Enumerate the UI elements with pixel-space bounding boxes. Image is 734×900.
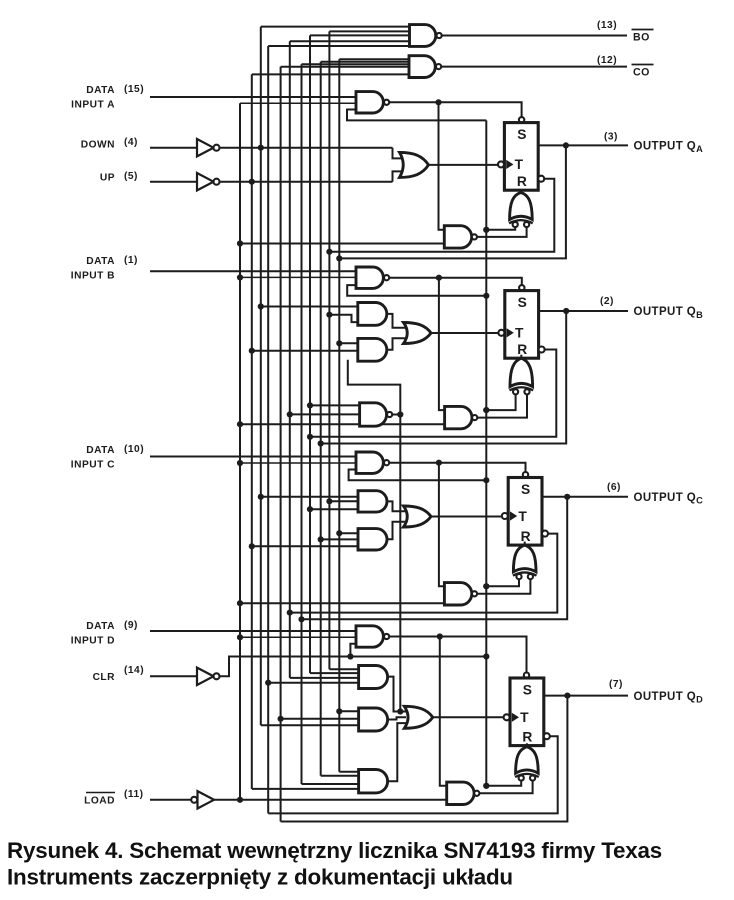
svg-text:DATA: DATA bbox=[86, 85, 115, 96]
nand-gate UA4 reset NAND stage A bbox=[444, 226, 477, 248]
or-gate stage D toggle OR bbox=[404, 706, 504, 728]
flip-flop UA2 T input bubble and arrow bbox=[498, 160, 513, 169]
svg-text:OUTPUT QC: OUTPUT QC bbox=[634, 492, 704, 506]
junction Q output node D bbox=[564, 693, 570, 699]
wire LOAD-bar rail bbox=[239, 103, 241, 800]
wire B AND1 input down bbox=[261, 306, 358, 308]
flip-flop UD2 T input bubble and arrow bbox=[504, 713, 519, 722]
wire D AND3 input up bbox=[252, 788, 359, 790]
wire CO input 2 from QB rail bbox=[321, 61, 409, 63]
svg-text:S: S bbox=[521, 482, 530, 497]
wire QB rail bbox=[320, 62, 322, 776]
wire stage C S-gate clear input bbox=[349, 470, 487, 481]
wire load to stage B S-gate bbox=[240, 276, 356, 278]
wire Q output stage C bbox=[542, 496, 628, 498]
wire D AND1 input 4 bbox=[268, 682, 358, 684]
junction bbox=[237, 600, 243, 606]
svg-text:UP: UP bbox=[100, 173, 115, 184]
svg-text:(4): (4) bbox=[124, 137, 138, 148]
flip-flop UC2 T input bubble and arrow bbox=[502, 511, 517, 520]
wire XOR right input to reset NAND bbox=[480, 781, 533, 794]
wire BO input 4 from Q-bar-C rail bbox=[290, 40, 409, 42]
flip-flop UD2 S input bubble bbox=[524, 673, 529, 678]
svg-text:(1): (1) bbox=[124, 255, 138, 266]
wire CO input 4 from QD rail bbox=[281, 66, 409, 68]
wire CO input 3 from QC rail bbox=[302, 63, 410, 65]
svg-text:OUTPUT QB: OUTPUT QB bbox=[634, 306, 704, 320]
wire B AND2 input QA bbox=[339, 342, 358, 344]
junction Q-bar joins rail bbox=[287, 610, 293, 616]
svg-text:(10): (10) bbox=[124, 444, 144, 455]
junction on CLR-bar rail bbox=[483, 293, 489, 299]
wire cross-couple down stage D bbox=[440, 637, 447, 786]
junction bbox=[237, 274, 243, 280]
label DATA INPUT B (1) bbox=[71, 255, 138, 282]
svg-text:Rysunek 4. Schemat wewnętrzny: Rysunek 4. Schemat wewnętrzny licznika S… bbox=[7, 838, 662, 863]
svg-text:(12): (12) bbox=[597, 55, 617, 66]
svg-text:DATA: DATA bbox=[86, 256, 115, 267]
wire XOR left input to CLR rail bbox=[486, 227, 515, 230]
svg-text:T: T bbox=[515, 157, 524, 172]
wire Q output stage D bbox=[544, 695, 628, 697]
wire XOR right input to reset NAND bbox=[477, 394, 527, 417]
label DATA INPUT C (10) bbox=[71, 444, 144, 471]
wire DATA INPUT C line bbox=[150, 456, 356, 458]
and-gate stage D AND3 bbox=[359, 770, 388, 793]
junction on CLR-bar rail bbox=[483, 477, 489, 483]
wire load to stage A S-gate bbox=[240, 102, 356, 104]
flip-flop UC2 S input bubble bbox=[523, 472, 528, 477]
or-gate stage B toggle OR bbox=[404, 323, 499, 344]
label LOAD (11) with overline bbox=[84, 789, 143, 807]
wire DATA INPUT B line bbox=[150, 270, 356, 272]
junction S-gate output node C bbox=[436, 460, 442, 466]
xor-gate UD3 reset gate stage D bbox=[515, 743, 539, 777]
wire D AND2 to OR bbox=[388, 717, 406, 719]
svg-text:(11): (11) bbox=[124, 789, 144, 800]
label output QC (6) bbox=[607, 482, 703, 506]
wire load to stage D S-gate bbox=[240, 636, 356, 638]
svg-text:INPUT D: INPUT D bbox=[71, 636, 115, 647]
flip-flop UB2 body bbox=[505, 291, 539, 359]
svg-text:(13): (13) bbox=[597, 20, 617, 31]
junction bbox=[336, 708, 342, 714]
junction bbox=[237, 421, 243, 427]
label UP (5) bbox=[100, 171, 138, 184]
and-gate stage C count-up AND bbox=[358, 529, 387, 550]
svg-text:DOWN: DOWN bbox=[81, 140, 115, 151]
wire S-gate output stage C bbox=[389, 463, 525, 472]
junction bbox=[336, 530, 342, 536]
label DOWN (4) bbox=[81, 137, 138, 151]
junction bbox=[307, 402, 313, 408]
junction on CLR-bar rail bbox=[483, 783, 489, 789]
and-gate stage B count-up AND bbox=[358, 338, 387, 361]
wire Q output stage B bbox=[539, 310, 628, 312]
label output QD (7) bbox=[609, 679, 703, 704]
junction on CLR-bar rail bbox=[483, 227, 489, 233]
inverter CLR buffer bbox=[197, 668, 220, 685]
svg-text:Instruments zaczerpnięty z dok: Instruments zaczerpnięty z dokumentacji … bbox=[7, 865, 513, 890]
wire B AND2 to OR bbox=[387, 338, 406, 350]
svg-text:CLR: CLR bbox=[93, 672, 116, 683]
wire cross-couple down stage C bbox=[439, 463, 445, 587]
junction LOAD rail tap bbox=[237, 797, 243, 803]
wire C AND1 input down bbox=[261, 496, 358, 498]
nand-gate UB1 data-load NAND stage B bbox=[356, 267, 389, 288]
wire D AND2 input QD bbox=[281, 718, 359, 720]
label CO with overline bbox=[632, 65, 654, 79]
and-gate stage B count-down AND bbox=[358, 303, 387, 326]
junction bbox=[307, 506, 313, 512]
wire Q-bar feedback stage D bbox=[268, 736, 558, 813]
flip-flop UD2 Q-bar bubble bbox=[544, 733, 550, 739]
svg-text:DATA: DATA bbox=[86, 621, 115, 632]
junction reset feedback on CLR rail bbox=[483, 227, 489, 233]
label DATA INPUT A (15) bbox=[71, 84, 144, 111]
svg-text:S: S bbox=[517, 127, 526, 142]
flip-flop UA2 Q-bar bubble bbox=[538, 176, 544, 182]
wire Q output stage A bbox=[538, 144, 628, 146]
junction Q output node B bbox=[563, 308, 569, 314]
nand-gate UB4 reset NAND stage B bbox=[445, 406, 478, 428]
wire XOR right input to reset NAND bbox=[477, 227, 526, 237]
wire D AND1 input 3 bbox=[290, 677, 359, 679]
wire Q-bar feedback stage B bbox=[310, 350, 556, 437]
label output QA (3) bbox=[604, 132, 703, 155]
nand-gate UD4 reset NAND stage D bbox=[447, 782, 480, 804]
xor-gate UC3 reset gate stage C bbox=[513, 542, 537, 576]
wire CO input 5 from UP rail bbox=[252, 73, 409, 75]
and-gate stage D AND2 bbox=[359, 708, 388, 731]
svg-text:T: T bbox=[520, 710, 529, 725]
junction Q joins rail bbox=[318, 440, 324, 446]
nand-gate BO (borrow output) bbox=[410, 25, 628, 47]
svg-text:(7): (7) bbox=[609, 679, 623, 690]
xor-gate input bubbles bbox=[516, 574, 533, 579]
junction UP rail tap bbox=[249, 179, 255, 185]
wire D AND2 input QA bbox=[339, 710, 358, 712]
junction bbox=[326, 312, 332, 318]
wire cascade in2 bbox=[290, 413, 360, 415]
wire load to stage C reset gate bbox=[240, 602, 444, 604]
wire cascade upper branch bbox=[348, 360, 401, 415]
or-gate stage A toggle OR bbox=[400, 152, 499, 177]
svg-text:INPUT B: INPUT B bbox=[71, 271, 115, 282]
flip-flop UA2 S input bubble bbox=[519, 117, 524, 122]
inverter DOWN buffer bbox=[197, 139, 220, 156]
wire D AND1 input 2 bbox=[310, 672, 359, 674]
wire C AND1 to OR bbox=[387, 501, 406, 511]
svg-text:(3): (3) bbox=[604, 132, 618, 143]
wire stage A S-gate clear input bbox=[347, 110, 486, 121]
wire QD rail bbox=[280, 67, 282, 822]
junction bbox=[249, 348, 255, 354]
wire Q-bar-C rail bbox=[289, 41, 291, 678]
wire S-gate output stage D bbox=[389, 637, 526, 673]
wire Q-bar-D rail bbox=[267, 46, 269, 813]
wire BO input 1 from DOWN rail bbox=[261, 26, 409, 28]
wire XOR left input to CLR rail bbox=[486, 781, 521, 786]
nand-gate UD1 data-load NAND stage D bbox=[356, 626, 389, 647]
xor-gate input bubbles bbox=[513, 222, 530, 227]
xor-gate input bubbles bbox=[513, 389, 530, 394]
junction Q output node C bbox=[564, 494, 570, 500]
junction bbox=[249, 543, 255, 549]
wire DOWN count rail bbox=[260, 27, 262, 726]
nand-gate CO (carry output) bbox=[409, 56, 627, 78]
svg-text:LOAD: LOAD bbox=[84, 796, 115, 807]
svg-text:OUTPUT QA: OUTPUT QA bbox=[634, 141, 704, 155]
junction bbox=[287, 411, 293, 417]
svg-text:T: T bbox=[515, 326, 524, 341]
flip-flop UA2 body bbox=[504, 123, 538, 191]
flip-flop UD2 body bbox=[510, 678, 544, 746]
wire Q-bar-A rail bbox=[328, 31, 330, 669]
caption line 2 bbox=[7, 865, 513, 890]
nand-gate UC4 reset NAND stage C bbox=[444, 583, 477, 605]
wire CLR buffered to rail bbox=[220, 657, 487, 677]
wire BO input 5 from Q-bar-D rail bbox=[268, 45, 409, 47]
label output QB (2) bbox=[600, 296, 703, 320]
junction Q joins rail bbox=[336, 255, 342, 261]
wire C AND2 input QA bbox=[339, 532, 358, 534]
label BO with overline bbox=[632, 30, 654, 44]
wire D AND3 input QA bbox=[339, 771, 358, 773]
junction CLR joins CLR-bar rail bbox=[483, 653, 489, 659]
flip-flop UC2 Q-bar bubble bbox=[542, 531, 548, 537]
junction bbox=[326, 498, 332, 504]
wire CLR input line bbox=[150, 675, 197, 677]
junction S-gate output node D bbox=[437, 633, 443, 639]
wire C AND1 input Q-bar-A bbox=[329, 500, 358, 502]
wire D AND2 input down bbox=[261, 724, 359, 726]
svg-text:INPUT C: INPUT C bbox=[71, 460, 115, 471]
junction Q joins rail bbox=[298, 616, 304, 622]
svg-text:CO: CO bbox=[633, 67, 650, 79]
flip-flop UB2 Q-bar bubble bbox=[539, 347, 545, 353]
wire S-gate output stage A bbox=[389, 102, 521, 117]
svg-text:OUTPUT QD: OUTPUT QD bbox=[634, 691, 704, 705]
nand-gate UC1 data-load NAND stage C bbox=[356, 452, 389, 473]
label pin (12) bbox=[597, 55, 617, 66]
junction cascade to OR-D bbox=[397, 708, 403, 714]
wire XOR left input to CLR rail bbox=[486, 394, 515, 410]
xor-gate input bubbles bbox=[519, 775, 536, 780]
wire S-gate output stage B bbox=[389, 278, 522, 286]
svg-text:(9): (9) bbox=[124, 620, 138, 631]
wire UP input line bbox=[150, 181, 197, 183]
wire BO input 3 from Q-bar-B rail bbox=[310, 34, 409, 36]
wire C AND2 to OR bbox=[387, 522, 406, 540]
svg-text:(5): (5) bbox=[124, 171, 138, 182]
nand-gate UA1 data-load NAND stage A bbox=[356, 92, 389, 113]
junction bbox=[237, 240, 243, 246]
flip-flop UB2 T input bubble and arrow bbox=[498, 328, 513, 337]
wire load to stage C S-gate bbox=[240, 462, 356, 464]
wire LOAD buffered line bbox=[214, 799, 447, 801]
xor-gate UB3 reset gate stage B bbox=[510, 355, 534, 391]
label CLR (14) bbox=[93, 665, 145, 683]
svg-text:(15): (15) bbox=[124, 84, 144, 95]
wire DOWN input line bbox=[150, 147, 197, 149]
junction CLR to stage D S-gate bbox=[347, 653, 353, 659]
inverter UP buffer bbox=[197, 173, 220, 190]
wire UP buffered bbox=[220, 171, 402, 181]
junction bbox=[336, 340, 342, 346]
svg-text:INPUT A: INPUT A bbox=[71, 100, 115, 111]
junction S-gate output node B bbox=[436, 275, 442, 281]
wire QA rail bbox=[338, 59, 340, 771]
and-gate stage C count-down AND bbox=[358, 491, 387, 512]
junction S-gate output node A bbox=[435, 99, 441, 105]
wire D AND1 to OR bbox=[388, 677, 406, 712]
wire D AND3 input QB bbox=[321, 775, 359, 777]
wire Q feedback stage B bbox=[321, 311, 567, 444]
junction bbox=[258, 303, 264, 309]
wire Q feedback stage D bbox=[281, 696, 568, 822]
wire Q feedback stage A bbox=[339, 145, 566, 258]
caption line 1 bbox=[7, 838, 662, 863]
svg-text:S: S bbox=[523, 683, 532, 698]
wire LOAD input line bbox=[150, 799, 191, 801]
wire D AND3 input QC bbox=[302, 783, 359, 785]
wire D AND1 input 1 bbox=[329, 668, 358, 670]
wire Q-bar feedback stage A bbox=[329, 179, 554, 252]
wire DOWN buffered bbox=[220, 148, 402, 159]
junction bbox=[237, 634, 243, 640]
svg-text:BO: BO bbox=[633, 32, 650, 44]
wire load to stage A reset gate bbox=[240, 243, 444, 245]
junction cascade node bbox=[397, 411, 403, 417]
label pin (13) bbox=[597, 20, 617, 31]
wire XOR right input to reset NAND bbox=[477, 579, 530, 594]
junction bbox=[265, 680, 271, 686]
wire XOR left input to CLR rail bbox=[486, 579, 519, 586]
svg-text:S: S bbox=[518, 295, 527, 310]
junction Q-bar joins rail bbox=[307, 434, 313, 440]
wire cross-couple down stage B bbox=[439, 278, 445, 410]
label DATA INPUT D (9) bbox=[71, 620, 138, 647]
wire B AND1 to OR bbox=[387, 314, 406, 328]
wire C AND2 input up bbox=[252, 545, 358, 547]
wire stage B S-gate clear input bbox=[347, 285, 486, 296]
junction reset feedback on CLR rail bbox=[483, 583, 489, 589]
svg-text:R: R bbox=[522, 730, 532, 745]
junction DOWN rail tap bbox=[258, 145, 264, 151]
wire C AND2 input QB bbox=[321, 538, 358, 540]
junction bbox=[318, 536, 324, 542]
junction bbox=[278, 716, 284, 722]
junction Q output node A bbox=[563, 142, 569, 148]
junction bbox=[237, 460, 243, 466]
wire DATA INPUT D line bbox=[150, 630, 356, 632]
svg-text:(2): (2) bbox=[600, 296, 614, 307]
junction Q-bar joins rail bbox=[326, 249, 332, 255]
wire BO input 2 from Q-bar-A rail bbox=[329, 30, 409, 32]
junction on CLR-bar rail bbox=[483, 583, 489, 589]
wire B AND2 input up bbox=[252, 350, 358, 352]
wire B AND1 input Q-bar-A bbox=[329, 315, 357, 322]
inverter LOAD buffer bbox=[191, 791, 214, 808]
junction on CLR-bar rail bbox=[483, 407, 489, 413]
svg-text:(6): (6) bbox=[607, 482, 621, 493]
wire cross-couple down stage A bbox=[439, 102, 445, 230]
svg-text:R: R bbox=[517, 174, 527, 189]
junction bbox=[258, 494, 264, 500]
wire DATA INPUT A line bbox=[150, 96, 356, 98]
wire cascade output rail bbox=[392, 415, 400, 712]
wire QC rail bbox=[301, 64, 303, 784]
xor-gate UA3 reset gate stage A bbox=[509, 189, 533, 223]
wire C AND1 input Q-bar-B bbox=[310, 508, 358, 510]
nand-gate cascade NAND stage B bbox=[360, 403, 393, 426]
and-gate stage D AND1 bbox=[359, 666, 388, 689]
wire CO input 1 from QA rail bbox=[339, 58, 409, 60]
wire stage D S-gate clear input bbox=[350, 644, 356, 657]
wire Q-bar-B rail bbox=[309, 35, 311, 673]
flip-flop UB2 S input bubble bbox=[519, 285, 524, 290]
or-gate stage C toggle OR bbox=[404, 506, 502, 527]
wire load to stage B reset gate bbox=[240, 423, 445, 425]
junction reset feedback on CLR rail bbox=[483, 407, 489, 413]
svg-text:T: T bbox=[518, 509, 527, 524]
svg-text:DATA: DATA bbox=[86, 445, 115, 456]
junction reset feedback on CLR rail bbox=[483, 783, 489, 789]
wire Q feedback stage C bbox=[302, 497, 568, 620]
flip-flop UC2 body bbox=[508, 478, 542, 546]
wire cascade in1 bbox=[310, 404, 360, 406]
wire CLR-bar rail bbox=[485, 120, 487, 785]
svg-text:(14): (14) bbox=[124, 665, 144, 676]
wire D AND3 to OR bbox=[388, 723, 406, 781]
wire UP count rail bbox=[251, 74, 253, 789]
wire Q-bar feedback stage C bbox=[290, 534, 558, 613]
